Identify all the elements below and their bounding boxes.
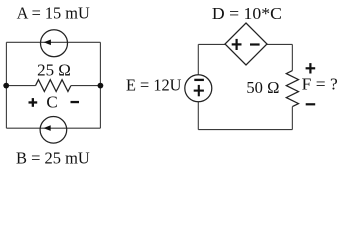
svg-text:50 Ω: 50 Ω: [246, 78, 279, 97]
polarity minus of F: [306, 103, 316, 105]
dependent source D (diamond): [225, 23, 267, 65]
wire top (left circuit): [6, 41, 100, 43]
resistor 50 ohm zigzag: [286, 71, 298, 107]
polarity minus of C: [71, 101, 80, 103]
svg-text:25 Ω: 25 Ω: [37, 61, 71, 80]
node dot right: [98, 83, 104, 89]
wire top (right circuit): [198, 43, 292, 45]
svg-text:B = 25 mU: B = 25 mU: [16, 148, 90, 167]
wire left (left circuit): [5, 42, 7, 128]
svg-text:D = 10*C: D = 10*C: [212, 4, 282, 23]
current source A: [41, 30, 68, 57]
resistor 25 ohm zigzag: [36, 80, 71, 92]
wire middle right lead (left circuit): [71, 85, 101, 87]
wire left (right circuit): [197, 44, 199, 129]
svg-text:C: C: [46, 92, 57, 111]
wire middle left lead (left circuit): [6, 85, 35, 87]
svg-text:A = 15 mU: A = 15 mU: [17, 3, 90, 22]
wire right (left circuit): [99, 42, 101, 128]
current source B: [40, 117, 67, 144]
voltage source E: [185, 75, 212, 102]
polarity plus of F: [306, 63, 316, 73]
wire right lower (right circuit): [291, 107, 293, 130]
svg-text:E = 12U: E = 12U: [126, 76, 181, 95]
wire right upper (right circuit): [291, 44, 293, 70]
svg-text:F = ?: F = ?: [302, 75, 338, 94]
wire bottom (right circuit): [198, 129, 292, 131]
polarity plus of C: [29, 98, 38, 107]
wire bottom (left circuit): [6, 127, 100, 129]
node dot left: [3, 83, 9, 89]
